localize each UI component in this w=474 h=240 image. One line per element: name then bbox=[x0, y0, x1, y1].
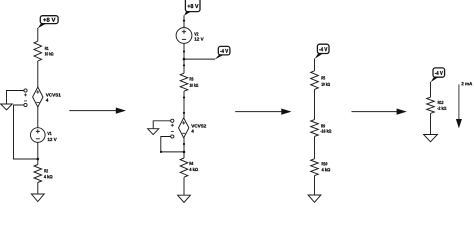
VCVS2 control plus sign bbox=[171, 124, 174, 127]
voltage source V1 bbox=[31, 128, 57, 143]
wire VCVS2 to R4 bbox=[183, 138, 185, 158]
wire R2 to ground bbox=[37, 183, 39, 195]
ground (circuit 1) bbox=[31, 194, 44, 202]
wire VCVS1 to V1 bbox=[37, 107, 39, 128]
resistor R5 bbox=[311, 71, 330, 90]
ground (circuit 4) bbox=[424, 135, 438, 142]
arrow step 1 bbox=[69, 108, 126, 114]
wire R9 to R10 bbox=[314, 136, 316, 158]
wire branch to -4V flag bbox=[184, 58, 215, 60]
wire control+ to ground bbox=[153, 121, 171, 129]
VCVS1 control minus sign bbox=[24, 100, 27, 102]
resistor R9 bbox=[311, 120, 332, 137]
node dot bbox=[183, 96, 185, 98]
resistor R10 bbox=[311, 159, 330, 176]
wire V1 to R2 bbox=[37, 142, 39, 164]
arrow step 3 bbox=[352, 109, 407, 115]
op VCVS1 dependent source bbox=[33, 87, 61, 107]
net flag -4V (circuit 2) bbox=[215, 46, 230, 59]
ground (circuit 2) bbox=[178, 195, 191, 202]
wire R4 to ground bbox=[183, 177, 185, 195]
wire R3 to VCVS2 bbox=[183, 91, 185, 118]
net flag -4V (circuit 4) bbox=[431, 68, 445, 82]
net flag +8V (circuit 2) bbox=[184, 0, 200, 16]
VCVS2 control minus sign bbox=[171, 131, 174, 133]
ground (circuit 3) bbox=[308, 195, 321, 202]
resistor R12 bbox=[427, 97, 447, 113]
node dot corner bbox=[160, 151, 162, 153]
wire R1 to VCVS1 bbox=[37, 61, 39, 87]
wire control- down to node bbox=[161, 137, 184, 152]
node dot bbox=[183, 64, 185, 66]
VCVS1 control terminal - (bottom circle) bbox=[24, 103, 27, 106]
net flag -4V (circuit 3) bbox=[315, 44, 329, 59]
resistor R1 bbox=[34, 41, 53, 61]
node dot bbox=[183, 112, 185, 114]
wire flag to R1 bbox=[37, 28, 39, 41]
wire flag to R5 bbox=[314, 59, 316, 71]
wire flag to V2 bbox=[183, 15, 185, 27]
VCVS1 control terminal + (top circle) bbox=[24, 89, 27, 92]
wire control+ to ground bbox=[7, 91, 25, 105]
resistor R3 bbox=[180, 73, 198, 91]
wire R10 to ground bbox=[314, 176, 316, 195]
ground (VCVS1 control) bbox=[1, 104, 13, 110]
wire V2 down to R3 bbox=[183, 43, 185, 73]
VCVS1 control plus sign bbox=[24, 93, 27, 96]
voltage source V2 bbox=[176, 28, 204, 44]
wire R5 to R9 bbox=[314, 89, 316, 119]
node junction below V1 bbox=[37, 158, 40, 161]
node dot bbox=[183, 50, 185, 52]
node dot bbox=[183, 143, 185, 145]
current annotation arrow 2 mA bbox=[456, 82, 472, 128]
node dot bbox=[183, 20, 185, 22]
net flag +8V (circuit 1) bbox=[38, 16, 58, 29]
wire R12 to ground bbox=[430, 113, 432, 134]
wire flag to R12 bbox=[430, 82, 432, 97]
arrow step 2 bbox=[235, 109, 291, 115]
wire control- down to node bbox=[14, 105, 38, 159]
op VCVS2 dependent source bbox=[179, 118, 207, 138]
ground (VCVS2 control) bbox=[148, 129, 159, 135]
VCVS2 control terminal + (top circle) bbox=[171, 119, 174, 122]
resistor R4 bbox=[180, 158, 198, 177]
VCVS2 control terminal - (bottom circle) bbox=[171, 135, 174, 138]
node junction to -4V branch bbox=[183, 58, 186, 61]
node junction bbox=[183, 151, 186, 154]
resistor R2 bbox=[34, 165, 52, 183]
